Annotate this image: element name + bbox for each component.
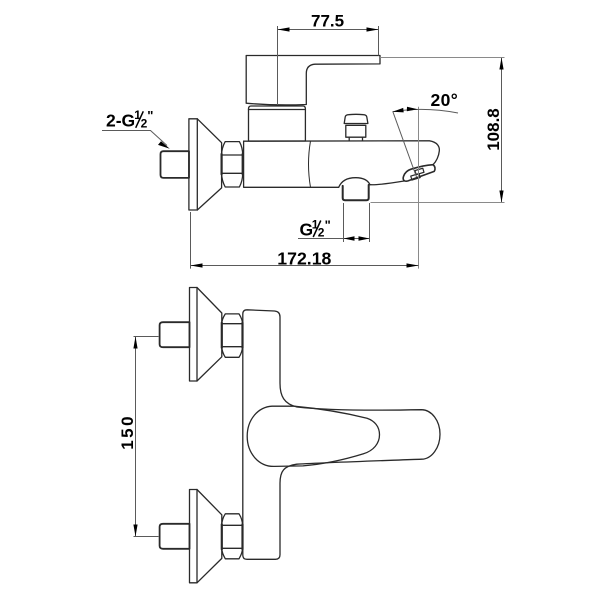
svg-text:150: 150 <box>118 414 137 450</box>
svg-text:": " <box>147 108 153 123</box>
svg-text:172.18: 172.18 <box>277 248 331 268</box>
svg-text:2-G: 2-G <box>106 111 135 131</box>
svg-text:": " <box>325 217 331 232</box>
svg-text:20°: 20° <box>431 90 459 110</box>
svg-text:77.5: 77.5 <box>311 11 344 30</box>
svg-text:108.8: 108.8 <box>484 108 503 151</box>
